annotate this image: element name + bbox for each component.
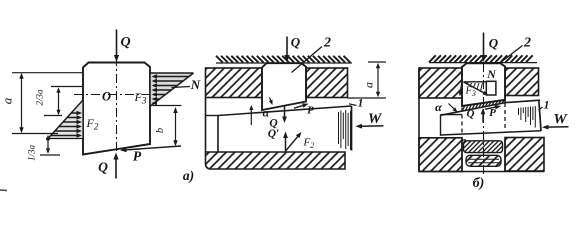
svg-text:a: a (0, 97, 15, 104)
figure b: right guide plate (hatched) (505, 68, 539, 96)
figure a: vertical dash-dot axis (116, 57, 118, 151)
figure b: wedge top right part (506, 100, 541, 102)
svg-text:1/3a: 1/3a (27, 145, 37, 162)
figure middle: dimension a extension line (348, 97, 387, 99)
svg-text:P: P (489, 107, 496, 119)
figure a: dimension b line (175, 109, 177, 145)
svg-text:Q: Q (120, 35, 130, 50)
figure middle: wedge left edge (217, 116, 219, 152)
figure b: left guide plate (hatched) (419, 68, 462, 98)
figure b: F3 arrow down (460, 83, 462, 93)
figure middle: force P arrow (294, 105, 305, 108)
scan mark bottom left (0, 189, 7, 192)
svg-text:б): б) (473, 176, 485, 191)
figure b: force P arrow (485, 107, 498, 110)
figure a: dimension 2/3a line (58, 89, 60, 114)
svg-text:2/3a: 2/3a (35, 89, 45, 106)
svg-text:2: 2 (523, 36, 531, 51)
figure b: ejector band 2 (466, 155, 501, 166)
figure middle: wedge right edge (351, 106, 353, 151)
svg-text:Q: Q (98, 160, 108, 175)
svg-text:O: O (102, 90, 111, 104)
svg-text:P: P (307, 105, 314, 117)
figure a: load triangle N hypotenuse (151, 73, 194, 106)
figure b: pressure diagram diagonal (464, 82, 486, 94)
figure a: horizontal dash-dot axis through O (74, 94, 161, 96)
figure b: recess left wall (461, 140, 463, 172)
figure a: leader to N (172, 87, 191, 88)
figure b: punch block 2 (462, 63, 505, 106)
svg-text:Q: Q (489, 36, 499, 51)
figure b: bottom edge (419, 171, 544, 173)
figure middle: leader of part 2 (292, 47, 323, 73)
figure b: pressure diagram box (486, 81, 496, 95)
figure a: dimension a top tick (12, 72, 83, 74)
figure b: angle alpha small arrow (449, 104, 456, 111)
figure middle: left die plate (hatched) (206, 68, 263, 98)
svg-text:N: N (486, 67, 497, 81)
figure middle: leader of part 1 (349, 104, 357, 106)
svg-text:Q′: Q′ (268, 128, 280, 140)
figure middle: ground hatching (216, 56, 352, 63)
figure middle: punch block 2 (262, 63, 306, 110)
figure b: leader of part 2 (501, 46, 523, 63)
figure middle: left wall (205, 98, 207, 153)
figure a: dimension a bottom tick (12, 133, 58, 135)
figure middle: force Q on slant arrow (284, 106, 286, 120)
figure b: notch horizontal line (441, 114, 463, 116)
figure a: load triangle F2 hypotenuse (48, 100, 83, 139)
figure middle: force Q arrow top (286, 37, 288, 58)
figure b: recess right wall (504, 140, 506, 171)
figure b: hidden hole edge dashed left (461, 108, 463, 135)
figure b: leader of part 1 (539, 107, 543, 110)
figure a: load triangle N arrows (152, 74, 189, 105)
figure b: ejector band 1 (hatched) (464, 141, 503, 153)
figure a: dimension 2/3a bottom tick (44, 115, 62, 117)
figure a: dimension 1/3a line (47, 137, 49, 153)
figure a: load triangle N (right face) fill (151, 73, 194, 106)
svg-text:a): a) (183, 168, 194, 183)
figure middle: wedge slant top (218, 106, 352, 116)
figure a: dimension 1/3a bottom tick (40, 154, 60, 156)
figure b: wedge right edge (539, 100, 541, 131)
svg-text:1: 1 (544, 100, 550, 112)
figure a: dimension b top tick (153, 105, 182, 107)
svg-text:P: P (133, 149, 142, 164)
svg-text:2: 2 (323, 36, 331, 51)
figure a: force P arrow (130, 146, 181, 150)
figure b: hidden hole edge dashed right (504, 103, 506, 131)
figure b: recess top left stub (462, 139, 466, 141)
figure middle: base block (hatched) (206, 152, 346, 169)
figure middle: reaction arrow up (285, 135, 287, 152)
figure b: pressure diagram hatch (467, 83, 483, 91)
svg-text:1: 1 (358, 98, 364, 110)
figure b: force W arrow (546, 126, 569, 128)
figure middle: force W arrow (359, 125, 383, 127)
figure middle: dimension a top tick (368, 61, 386, 63)
figure a: dimension a line (21, 75, 23, 131)
figure middle: angle alpha tick arrow (250, 108, 252, 125)
figure middle: channel top-left line (206, 115, 219, 117)
figure middle: force F2 arrow (286, 135, 299, 151)
svg-text:b: b (155, 128, 166, 133)
figure a: force Q top arrow (116, 30, 118, 58)
figure b: force Q arrow top (483, 33, 485, 58)
figure a: load triangle N top edge (151, 72, 194, 74)
figure a: dimension 2/3a top tick (51, 86, 84, 88)
figure b: wedge bottom (441, 131, 542, 135)
svg-text:Q: Q (291, 35, 301, 50)
figure b: pressure diagram top line (464, 81, 487, 83)
figure b: left base block (hatched) (419, 138, 462, 172)
figure a: plunger block (83, 63, 150, 155)
figure b: ejector band 2 inner lines (468, 158, 499, 160)
figure b: contact band hatch (462, 100, 504, 110)
figure a: load triangle F2 (left face) fill (48, 100, 83, 139)
svg-text:N: N (190, 77, 201, 92)
figure b: wedge slant top (441, 103, 506, 116)
figure b: right base block (hatched) (505, 138, 544, 172)
figure middle: shading strokes on wedge right (339, 110, 351, 150)
svg-text:W: W (368, 111, 383, 127)
figure middle: dimension a line (377, 65, 379, 96)
svg-text:Q: Q (467, 108, 475, 120)
figure b: force Q arrow up (482, 112, 484, 123)
svg-text:W: W (553, 112, 568, 128)
figure b: left wall (418, 68, 420, 172)
figure b: vertical dash-dot axis (483, 63, 485, 177)
svg-text:α: α (435, 100, 442, 114)
figure b: shading strokes on wedge right (519, 106, 536, 128)
svg-text:a: a (362, 82, 376, 88)
figure middle: angle alpha small arrow (270, 98, 272, 103)
figure b: ground hatching (429, 55, 537, 62)
figure middle: right die plate (hatched) (306, 68, 348, 98)
figure a: load triangle F2 arrows (51, 111, 82, 138)
figure a: load triangle F2 baseline (46, 138, 83, 140)
figure b: notch vertical line (440, 115, 442, 136)
figure a: force Q bottom arrow (115, 157, 117, 179)
